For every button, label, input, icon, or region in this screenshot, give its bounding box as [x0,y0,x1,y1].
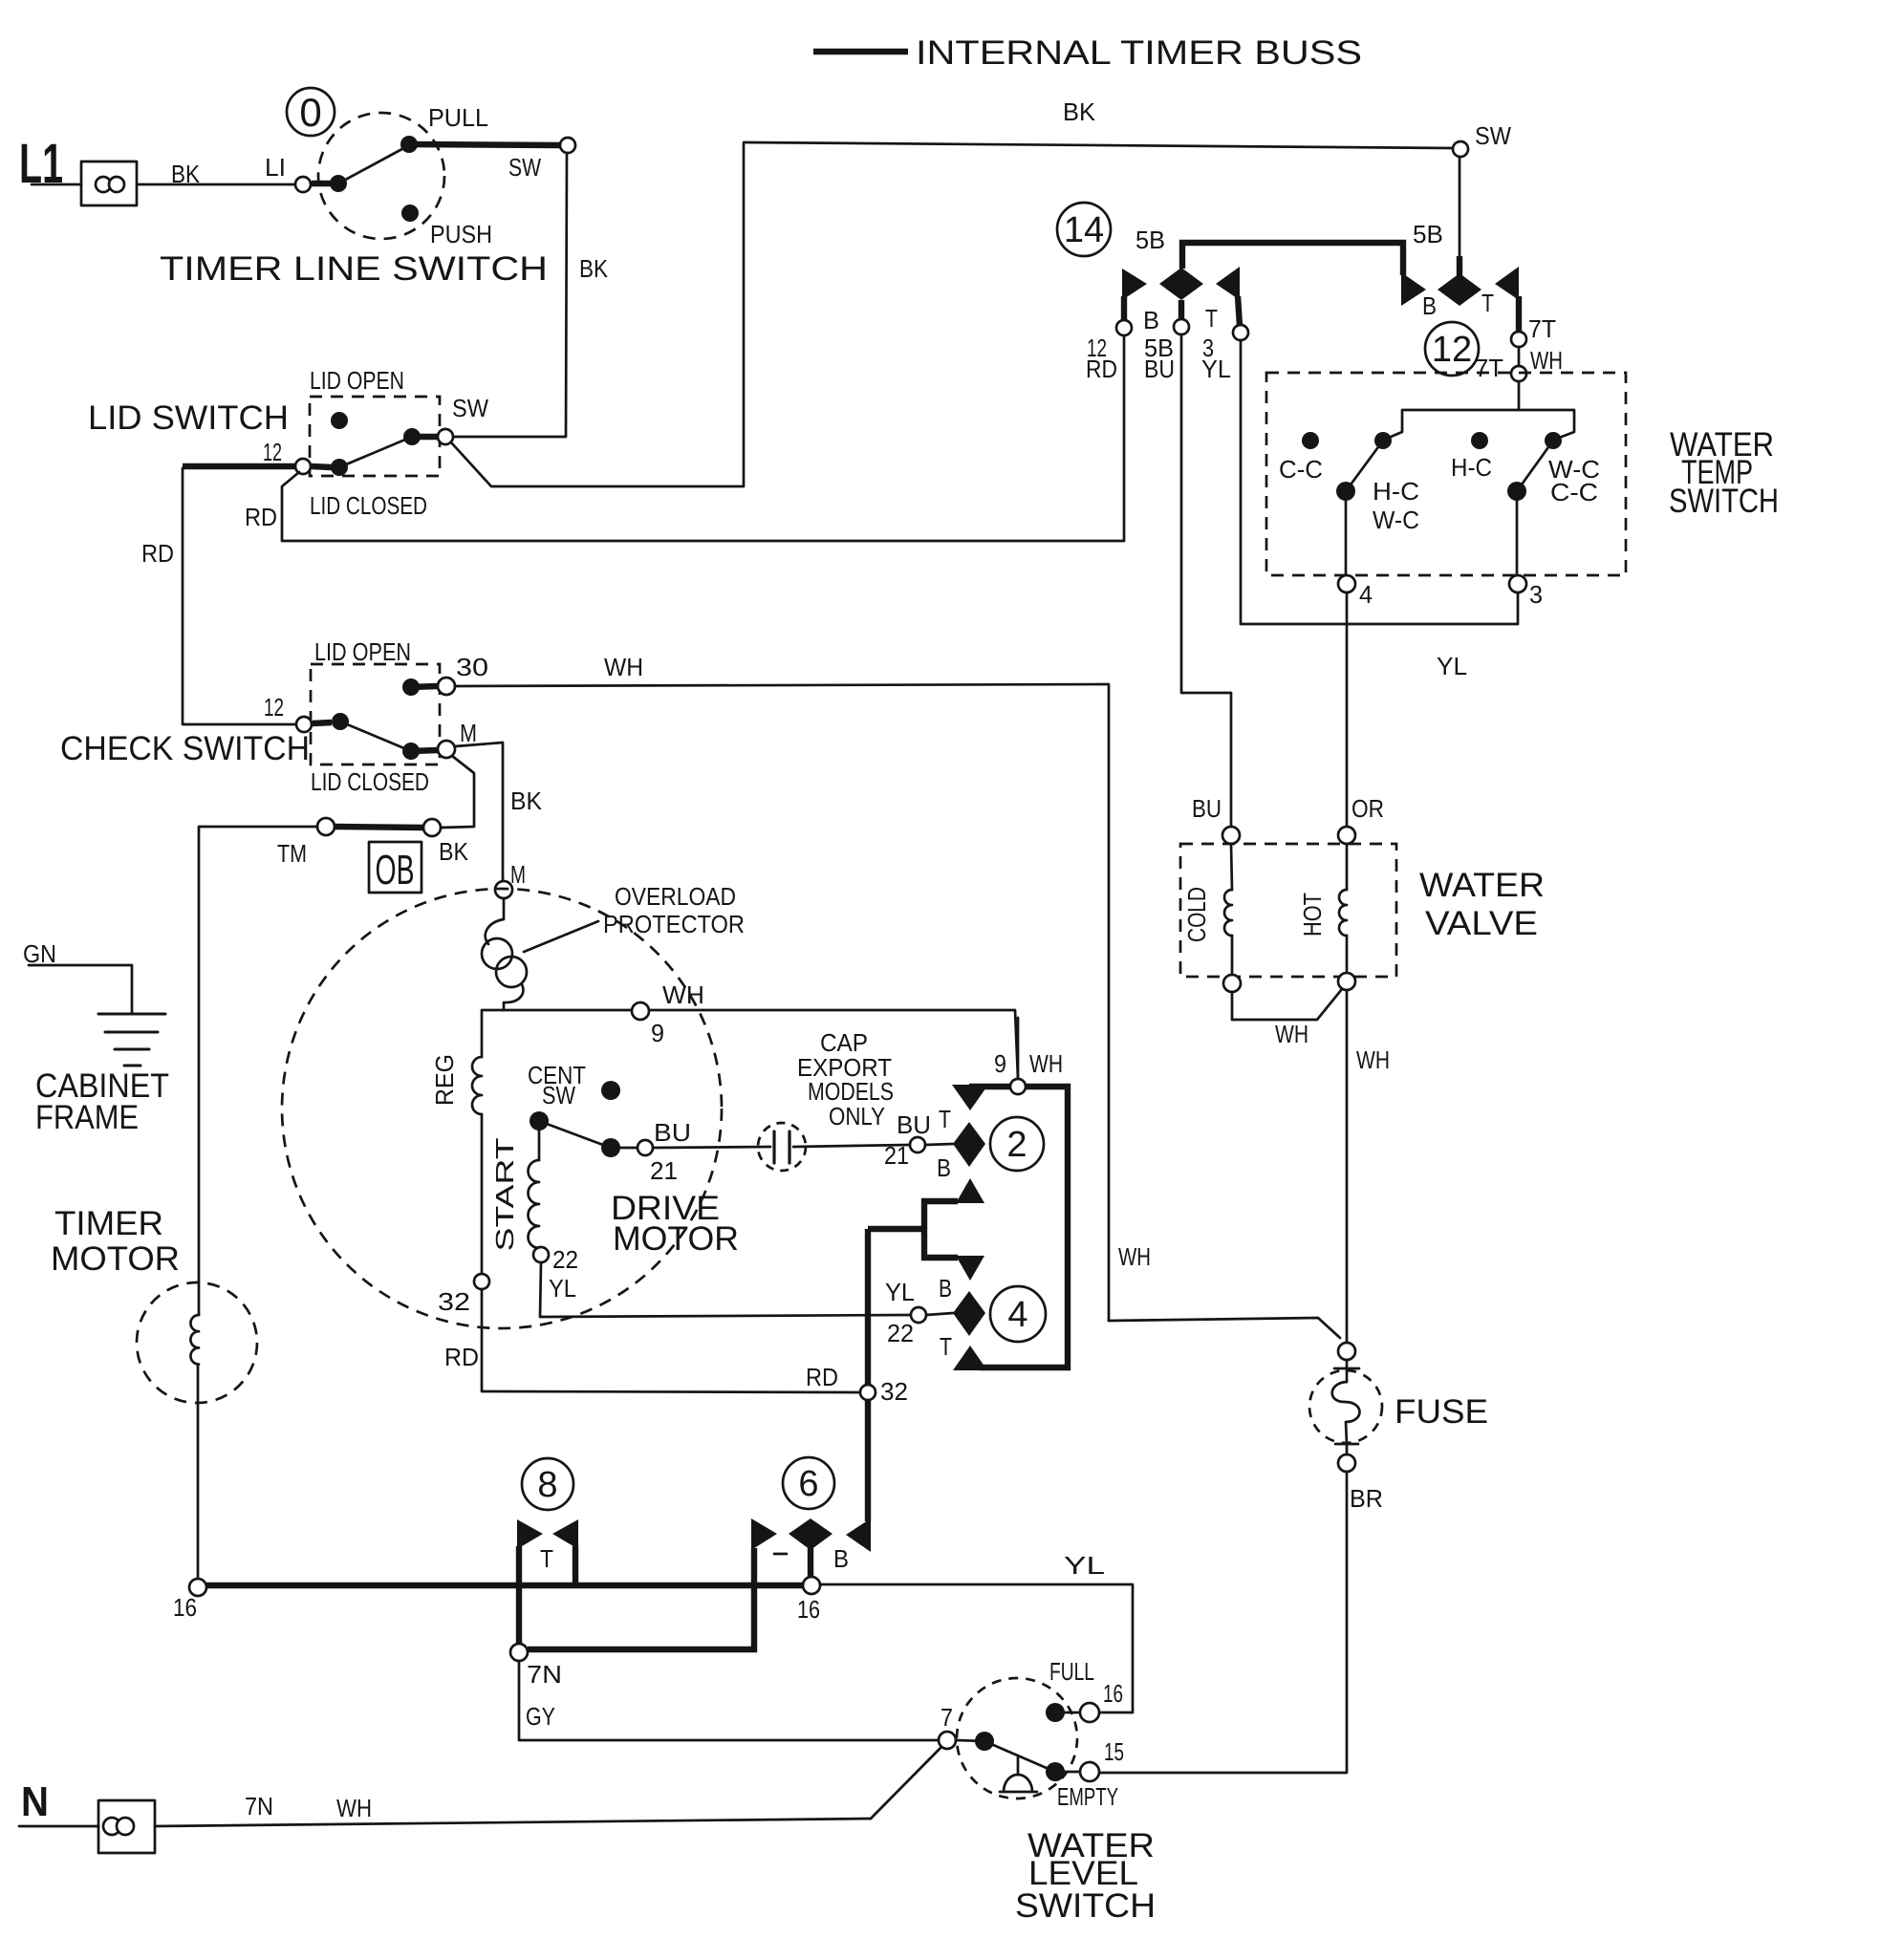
svg-text:BK: BK [171,160,201,188]
timer cam 12 symbol [1425,322,1479,376]
svg-text:OR: OR [1352,794,1384,823]
svg-text:12: 12 [263,438,282,466]
terminal 16 (timer motor) [189,1579,206,1596]
wire to motor terminal 21 [620,1147,638,1150]
check switch buss stub [313,722,332,723]
svg-text:HOT: HOT [1298,893,1327,937]
svg-text:WH: WH [1356,1045,1390,1074]
buss 7N to cam 6 [528,1548,754,1649]
wire RD down to check switch 12 [183,468,295,724]
wire to terminal 16 [197,1365,200,1579]
dashed outline timer line switch [318,113,444,239]
SECTION: top [19,34,1511,1321]
wire GY 7N to water level 7 [519,1661,939,1740]
terminal 21 (motor BU) [638,1140,653,1155]
svg-text:32: 32 [880,1377,908,1406]
svg-text:ONLY: ONLY [829,1102,885,1131]
wire YL cam to temp switch 3 [1241,340,1518,624]
buss 16 run [206,1583,803,1588]
svg-text:21: 21 [650,1156,678,1185]
ground (cabinet frame) [98,1013,165,1016]
water level pendulum [1017,1756,1020,1775]
wire YL motor 22 to cam 4 [540,1262,910,1317]
wire from check switch M to TM-BK buss [442,756,474,828]
svg-text:CHECK SWITCH: CHECK SWITCH [60,730,310,767]
svg-text:FULL: FULL [1049,1657,1094,1686]
wire BU 21 to capacitor [653,1147,770,1148]
svg-text:22: 22 [887,1319,914,1347]
svg-text:30: 30 [456,653,488,681]
water level switch dashed outline [957,1678,1077,1798]
temp switch right pole top contact [1545,432,1562,449]
terminal 22 (motor) [533,1247,549,1262]
SECTION: bottom [19,939,1156,1925]
svg-text:BK: BK [439,837,469,866]
timer motor coil [190,1315,199,1365]
wire BR fuse to water level 15 [1099,1472,1347,1773]
lid switch terminal SW [438,429,453,444]
cam 12 diamond stem [1457,256,1462,275]
svg-text:M: M [460,719,477,747]
terminal 4 [1338,575,1355,592]
lid switch pivot contact [331,459,348,476]
timer line switch PUSH contact [401,205,419,222]
svg-text:RD: RD [444,1343,479,1371]
timer cam 8 symbol [522,1458,573,1510]
svg-text:PROTECTOR: PROTECTOR [603,910,745,938]
svg-text:2: 2 [1006,1125,1027,1165]
buss from PULL contact to SW terminal [409,144,561,145]
buss bracket cam2 B to cam4 B [924,1201,958,1258]
svg-text:T: T [1481,289,1494,317]
terminal BU (valve) [1222,827,1240,844]
terminal WH (9 on motor) [632,1002,649,1020]
svg-text:7N: 7N [245,1792,273,1820]
wire BK top run to right SW terminal [744,142,1453,148]
terminal TM [317,818,335,835]
wire to terminal 3 [1516,501,1519,576]
wire 22 to cam 4 diamond [926,1313,953,1315]
svg-text:H-C: H-C [1373,477,1419,506]
timer line switch arm [338,145,409,183]
svg-text:9: 9 [994,1049,1006,1078]
svg-text:GY: GY [526,1702,555,1731]
svg-text:5B: 5B [1413,220,1443,248]
svg-text:SW: SW [508,153,541,182]
svg-text:REG: REG [430,1054,459,1106]
svg-text:LID OPEN: LID OPEN [310,366,404,395]
svg-text:RD: RD [141,539,174,568]
wire 7 diagonal to neutral run [871,1747,941,1819]
buss down to cam 6 [865,1229,871,1521]
wire RD motor 32 to cam 6 net [482,1289,859,1392]
buss stub to 30 [411,686,438,687]
buss TM to BK [335,827,423,828]
temp switch right pole lower contact [1507,482,1526,501]
terminal 7 [939,1732,956,1749]
svg-text:WATER: WATER [1419,867,1545,904]
svg-text:21: 21 [884,1141,909,1170]
lid switch LID OPEN contact [331,412,348,429]
svg-text:LI: LI [265,153,286,182]
timer line switch PULL contact [400,136,418,153]
svg-text:4: 4 [1007,1295,1027,1335]
timer cam 0 symbol [287,88,335,136]
svg-text:22: 22 [552,1245,578,1274]
lid switch dashed box [310,397,440,476]
svg-text:4: 4 [1359,580,1373,609]
cam 14 T lead triangle [1216,267,1240,300]
svg-text:N: N [21,1778,49,1825]
check switch dashed box [311,664,440,765]
terminal block L1 [81,162,137,205]
svg-text:W-C: W-C [1373,506,1419,534]
temp switch H-C contact [1471,432,1488,449]
terminal 32 (junction) [860,1385,876,1400]
wire WH motor 9 down to cam 2 area [1017,1018,1020,1079]
svg-text:WH: WH [662,980,704,1009]
svg-text:MOTOR: MOTOR [613,1220,739,1258]
cent sw pivot [530,1111,549,1131]
svg-text:BK: BK [510,786,543,815]
svg-text:RD: RD [245,503,277,531]
svg-text:B: B [1143,306,1159,334]
terminal SW (timer line switch) [560,138,575,153]
svg-text:M: M [510,860,526,889]
check switch terminal 12 [296,717,312,732]
terminal 5B BU [1174,319,1189,334]
check switch pivot contact [332,713,349,730]
svg-text:SWITCH: SWITCH [1015,1887,1156,1925]
svg-text:BU: BU [1192,794,1222,823]
wire 7N WH neutral run [155,1819,871,1826]
cent sw open contact [601,1081,620,1100]
terminal block N [98,1800,155,1853]
svg-text:TIMER: TIMER [54,1205,163,1242]
cam 8 right stem to buss [573,1546,578,1585]
temp switch left pole lower contact [1336,482,1355,501]
svg-text:B: B [1422,291,1437,320]
overload protector coil [486,898,504,944]
terminal 21 (cam 2) [910,1137,925,1152]
svg-text:INTERNAL TIMER BUSS: INTERNAL TIMER BUSS [916,34,1362,72]
water level pivot contact [975,1732,994,1751]
cam 6 left lead triangle [751,1518,777,1550]
svg-text:16: 16 [173,1593,197,1622]
svg-text:LID OPEN: LID OPEN [314,637,411,666]
svg-text:0: 0 [299,90,321,135]
motor REG winding [472,1057,482,1114]
cam 12 contact diamond [1438,273,1481,306]
terminal SW (top right) [1453,141,1468,157]
terminal 3 [1509,575,1526,592]
wire 12 buss to left [183,463,296,469]
buss from 9 left to cam 2 T lead [969,1084,1010,1089]
svg-text:32: 32 [438,1287,470,1316]
valve HOT outlet terminal [1338,973,1355,990]
svg-text:WH: WH [604,653,643,681]
label - [774,1553,787,1556]
check switch terminal M [438,741,455,758]
terminal 15 [1080,1762,1099,1781]
cam 14 B lead triangle [1122,269,1147,300]
svg-text:FRAME: FRAME [35,1099,139,1136]
svg-text:B: B [939,1274,952,1303]
buss stub to SW [412,434,438,440]
terminal 7T lower [1511,366,1526,381]
wire L1 stub [32,183,81,186]
wire 7T to right pole [1519,410,1574,440]
svg-text:YL: YL [549,1274,576,1303]
cam 14 diamond stem [1179,300,1184,320]
terminal M (overload) [495,881,512,898]
valve HOT coil [1346,844,1349,890]
capacitor (export models) [772,1131,775,1163]
svg-text:5B: 5B [1135,226,1165,254]
wire RD from lid switch 12 to timer cam 12 [282,336,1124,541]
cam 14 T stem [1238,296,1240,326]
lid switch buss stub [312,466,332,467]
wire M from check switch to overload [455,743,503,881]
cam 6 right lead triangle [846,1518,871,1552]
svg-text:WH: WH [336,1794,372,1822]
svg-text:PUSH: PUSH [430,220,492,248]
callout line overload protector [524,921,598,952]
cent sw arm [539,1121,611,1148]
svg-text:B: B [937,1153,951,1182]
cam 12 B lead triangle [1401,272,1426,306]
water temp switch dashed box [1266,373,1626,575]
svg-text:C-C: C-C [1279,455,1323,484]
svg-text:14: 14 [1064,210,1104,250]
svg-text:WH: WH [1275,1020,1308,1048]
drive motor dashed outline [282,889,722,1328]
svg-text:9: 9 [651,1019,664,1047]
valve COLD outlet terminal [1223,975,1241,992]
svg-text:LID CLOSED: LID CLOSED [310,491,427,520]
svg-text:BU: BU [897,1110,931,1139]
svg-text:B: B [833,1544,849,1573]
svg-text:16: 16 [1103,1679,1123,1708]
wire SW down to cam 12 [1459,157,1461,258]
SECTION: right [806,157,1779,1773]
wire N stub [19,1825,98,1828]
svg-text:GN: GN [23,939,56,968]
svg-text:PULL: PULL [428,103,488,132]
wire 21 to cam 2 diamond [925,1144,953,1145]
motor top wire [482,1010,1018,1079]
lid switch LID CLOSED contact [403,428,421,445]
wire BU cam to valve [1181,334,1231,827]
svg-text:YL: YL [1437,652,1467,680]
cam 2 B lead triangle [956,1178,984,1203]
legend: internal timer buss sample line [813,49,908,54]
svg-text:TM: TM [277,839,307,868]
svg-text:12: 12 [264,693,284,722]
wire from lid switch SW up to timer buss BK run [451,144,744,486]
svg-text:SW: SW [452,394,488,422]
svg-text:T: T [540,1544,553,1573]
svg-text:EMPTY: EMPTY [1057,1782,1118,1811]
svg-text:BK: BK [579,254,609,283]
wire OR temp switch 4 to valve [1346,592,1349,828]
buss tap to cam 6 [868,1226,924,1232]
svg-text:7: 7 [941,1703,953,1732]
fuse dashed outline [1309,1370,1382,1443]
terminal 9 (cam 2) [1010,1079,1026,1094]
lid switch terminal 12 [295,459,311,474]
wire BK down from SW terminal [453,153,567,437]
timer cam 6 symbol [783,1457,834,1509]
timer motor dashed outline [137,1282,257,1403]
cam 4 T lead triangle [953,1346,987,1370]
temp switch C-C contact [1302,432,1319,449]
terminal LI (timer line switch input) [295,177,311,192]
svg-text:WH: WH [1118,1242,1151,1271]
temp switch left arm [1346,441,1383,491]
terminal 16 (water level) [1080,1703,1099,1722]
check switch LID CLOSED contact [402,743,420,760]
buss 5B cam14 to cam12 [1182,243,1403,275]
svg-text:RD: RD [1086,355,1117,383]
svg-text:YL: YL [1201,355,1231,383]
terminal 7T upper [1511,332,1526,347]
wire WH long run joins fuse [1109,1318,1340,1338]
cam 12 T lead triangle [1495,267,1519,300]
svg-text:YL: YL [885,1278,915,1306]
stub FULL to 16 [1065,1712,1080,1714]
svg-text:SWITCH: SWITCH [1669,483,1779,520]
svg-text:7T: 7T [1475,354,1503,382]
terminal BK [423,819,441,836]
svg-text:FUSE: FUSE [1395,1393,1488,1431]
svg-text:8: 8 [537,1465,557,1505]
wire between 7T terminals [1518,347,1521,366]
temp switch right arm [1517,441,1553,491]
cam 4 symbol [990,1286,1046,1342]
svg-text:BU: BU [654,1118,691,1147]
svg-text:7N: 7N [527,1660,562,1689]
timer cam 4 contact diamond [953,1291,985,1336]
terminal 7N [510,1644,528,1661]
cam 8 contact triangles [517,1519,543,1549]
water level FULL contact [1046,1703,1065,1722]
svg-text:6: 6 [798,1464,818,1504]
svg-text:C-C: C-C [1550,478,1598,506]
svg-text:YL: YL [1064,1551,1105,1580]
check switch terminal 30 [438,678,455,695]
cam 2 T lead triangle [952,1085,988,1110]
wire WH valve common [1232,989,1342,1020]
svg-text:MOTOR: MOTOR [51,1240,180,1278]
svg-text:3: 3 [1529,580,1543,609]
svg-text:SW: SW [542,1081,575,1109]
fuse top terminal [1338,1343,1355,1360]
timer line switch pivot contact [330,175,347,192]
check switch LID OPEN contact [402,678,420,696]
motor START winding [538,1131,541,1160]
svg-text:SW: SW [1475,121,1511,150]
terminal 3 YL [1233,325,1248,340]
fuse bottom terminal [1338,1454,1355,1472]
terminal 12 RD [1116,320,1132,335]
stub EMPTY to 15 [1065,1771,1080,1774]
wire capacitor to cam 2 terminal 21 [793,1145,910,1147]
wire TM to timer motor [199,827,317,1315]
valve COLD coil [1231,844,1232,890]
check switch arm [340,722,411,751]
svg-text:T: T [940,1332,952,1361]
lid switch arm [339,437,412,467]
svg-text:WH: WH [1530,346,1563,375]
svg-text:T: T [1205,304,1218,333]
terminal 22 (cam 4) [911,1307,926,1323]
svg-text:7T: 7T [1528,314,1556,343]
svg-text:T: T [939,1105,951,1133]
svg-text:12: 12 [1432,330,1472,370]
motor left wire to 32 [481,1114,484,1274]
temp switch left pole top contact [1374,432,1392,449]
cam 6 diamond stem [808,1548,813,1577]
wire WH valve to fuse [1346,990,1349,1343]
cam 12 T stem [1516,296,1522,332]
wire BK from L1 block to switch [137,183,295,186]
buss stub to M [411,750,438,751]
svg-text:BU: BU [1144,355,1175,383]
svg-text:BK: BK [1063,97,1096,126]
cam 8 left stem to 7N [516,1546,522,1644]
svg-text:OB: OB [376,847,415,894]
SECTION: middle [199,743,1018,1392]
svg-text:15: 15 [1104,1737,1124,1766]
cam 2 symbol [990,1117,1044,1171]
svg-text:WH: WH [1029,1049,1063,1078]
wire to terminal 4 [1345,501,1348,576]
svg-text:TIMER LINE SWITCH: TIMER LINE SWITCH [160,250,548,288]
svg-text:H-C: H-C [1451,453,1492,482]
cent sw moving contact [601,1138,620,1157]
svg-text:START: START [490,1137,519,1251]
svg-text:COLD: COLD [1182,887,1211,942]
wire WH from 30 to fuse run [455,684,1109,1321]
svg-text:RD: RD [806,1363,838,1391]
timer cam 14 symbol [1057,203,1111,256]
wire YL 16 to water level FULL [820,1584,1133,1712]
buss from 9 right and down to cam 4 T lead [980,1087,1068,1368]
svg-text:VALVE: VALVE [1425,905,1538,942]
cam 6 contact diamond [789,1518,833,1550]
cam 4 B lead triangle [956,1256,984,1281]
cam 14 contact diamond [1159,268,1203,300]
svg-text:BR: BR [1350,1484,1383,1513]
svg-text:OVERLOAD: OVERLOAD [615,882,736,911]
water level EMPTY contact [1046,1762,1065,1781]
terminal OR (valve) [1338,827,1355,844]
water level arm [984,1741,1055,1772]
fuse element [1346,1360,1349,1382]
terminal 32 (motor) [474,1274,489,1289]
terminal 16 (cam 6) [803,1577,820,1594]
wire 7T into switch [1384,381,1519,440]
svg-text:LID SWITCH: LID SWITCH [88,399,289,437]
timer line switch buss stub [312,181,332,186]
svg-text:LID CLOSED: LID CLOSED [311,767,429,796]
water valve dashed box [1180,844,1396,977]
svg-text:16: 16 [797,1595,820,1624]
timer cam 2 contact diamond [953,1122,985,1167]
cam 14 B stem [1121,296,1127,321]
OB box [369,842,422,893]
